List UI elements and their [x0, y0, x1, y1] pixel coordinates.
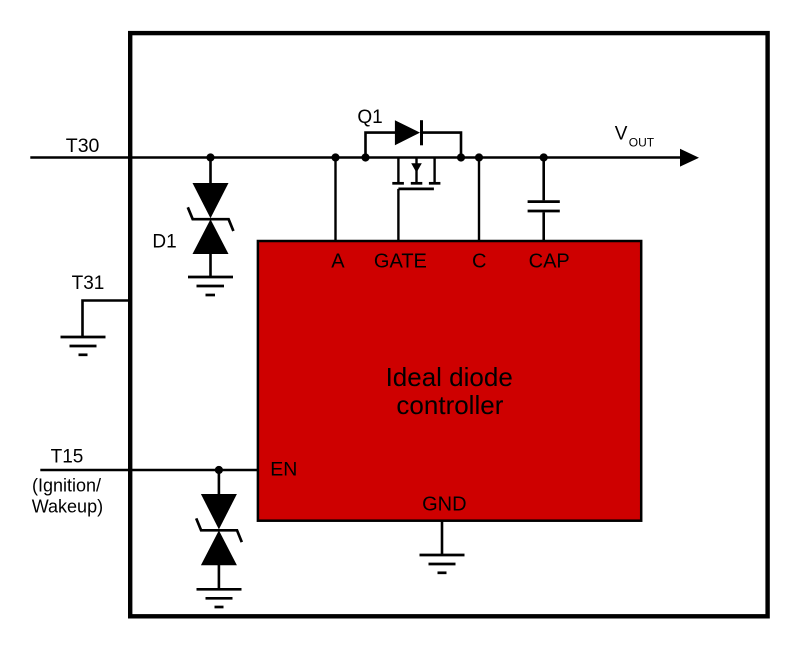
wire T15/EN	[40, 469, 258, 472]
svg-text:Wakeup): Wakeup)	[32, 497, 103, 517]
node junction dot C	[475, 153, 483, 161]
svg-text:T31: T31	[72, 273, 105, 294]
wire T31	[83, 301, 131, 338]
svg-text:OUT: OUT	[629, 135, 655, 149]
IC U1 ideal diode controller box	[258, 241, 641, 521]
capacitor CAP	[528, 158, 560, 242]
diode D1 (TVS)	[188, 158, 234, 278]
svg-text:Q1: Q1	[357, 107, 382, 128]
ground below GND	[420, 555, 465, 573]
ground T31	[61, 337, 106, 355]
svg-text:T30: T30	[66, 135, 100, 157]
svg-text:(Ignition/: (Ignition/	[32, 476, 101, 496]
svg-text:GATE: GATE	[374, 250, 427, 272]
ground below D1	[188, 277, 233, 295]
svg-text:controller: controller	[396, 390, 503, 420]
node junction dot A	[331, 153, 339, 161]
svg-text:GND: GND	[422, 494, 466, 516]
node junction dot Q1 left	[361, 153, 369, 161]
svg-text:Ideal diode: Ideal diode	[386, 362, 513, 392]
node junction dot Q1 right	[457, 153, 465, 161]
svg-text:EN: EN	[270, 459, 297, 481]
node junction dot CAP	[540, 153, 548, 161]
svg-text:V: V	[615, 124, 628, 145]
diode D2 (TVS on EN)	[196, 470, 242, 589]
ground below D2	[197, 589, 242, 607]
svg-text:C: C	[472, 250, 486, 272]
svg-text:A: A	[331, 250, 345, 272]
svg-text:D1: D1	[152, 231, 176, 252]
transistor Q1 MOSFET symbol	[392, 158, 440, 189]
wire C pin	[478, 158, 480, 242]
node T30/VOUT arrowhead	[680, 149, 699, 167]
svg-text:T15: T15	[51, 447, 84, 468]
wire GND pin	[441, 520, 444, 555]
wire A pin	[334, 158, 336, 242]
node junction dot D1	[206, 153, 214, 161]
wire GATE	[397, 189, 399, 241]
svg-text:CAP: CAP	[529, 250, 570, 272]
node junction dot EN	[215, 466, 223, 474]
wire T30 main rail	[30, 156, 681, 159]
transistor Q1 body-diode loop	[366, 120, 462, 157]
